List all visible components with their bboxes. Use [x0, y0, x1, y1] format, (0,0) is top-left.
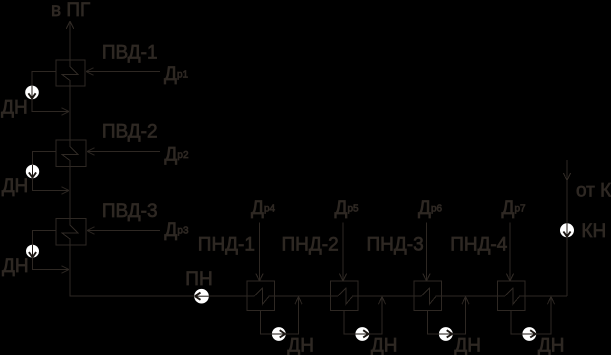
- wire: drain return of ПНД-2 into main line with up arrowhead: [369, 297, 386, 334]
- heater ПНД-1 (box with zigzag): [247, 281, 275, 311]
- wire: drain return of ПВД-3 into main line with arrowhead: [33, 257, 70, 273]
- label Др6 (extraction steam 6): [418, 198, 443, 219]
- wire: main line ПНД-3 to ПНД-4: [441, 295, 497, 297]
- svg-text:р3: р3: [177, 226, 189, 237]
- wire: drain return of ПНД-1 into main line with up arrowhead: [286, 297, 303, 334]
- svg-text:Д: Д: [164, 64, 177, 85]
- label Др2 (extraction steam 2): [164, 145, 189, 166]
- wire: steam line Др4 into ПНД-1 with down arrowhead: [256, 223, 263, 282]
- wire: steam line Др2 into ПВД-2 with arrowhead: [87, 148, 160, 155]
- wire: steam line Др5 into ПНД-2 with down arrowhead: [339, 223, 346, 282]
- wire: drain return of ПНД-3 into main line with up arrowhead: [453, 297, 470, 334]
- heater ПНД-4 (box with zigzag): [497, 281, 525, 311]
- svg-text:р7: р7: [515, 204, 527, 215]
- svg-text:ДН: ДН: [2, 256, 29, 277]
- wire: drain loop of ПНД-3: [428, 311, 439, 335]
- heater ПНД-3 (box with zigzag): [414, 281, 442, 311]
- wire: drain loop of ПНД-1: [261, 311, 272, 335]
- svg-text:ПНД-3: ПНД-3: [367, 235, 424, 256]
- wire: main line from ПВД-3 down and corner to bottom run: [70, 245, 195, 296]
- wire: steam line Др7 into ПНД-4 with down arrowhead: [506, 223, 513, 282]
- wire: main line ПНД-1 to ПНД-2: [274, 295, 330, 297]
- wire: main line between ПВД-2 and ПВД-3: [69, 167, 71, 219]
- wire: drain loop of ПВД-2 to pump: [33, 152, 57, 166]
- svg-text:Д: Д: [164, 220, 177, 241]
- svg-text:в ПГ: в ПГ: [51, 0, 90, 21]
- svg-text:р1: р1: [177, 69, 189, 80]
- svg-text:ДН: ДН: [538, 336, 565, 355]
- pump ДН5 (drain pump under ПНД-2, circle with right arrow): [355, 327, 369, 341]
- wire: bottom main line ПН to ПНД-1: [209, 295, 247, 297]
- svg-text:КН: КН: [581, 221, 606, 242]
- svg-text:от К: от К: [576, 181, 611, 202]
- svg-text:ДН: ДН: [454, 336, 481, 355]
- wire: drain return of ПВД-2 into main line with arrowhead: [33, 178, 70, 195]
- wire: drain return of ПВД-1 into main line with arrowhead: [32, 99, 69, 116]
- wire: drain loop of ПВД-1 to pump: [32, 72, 56, 86]
- pump ДН2 (drain pump, circle with down arrow): [26, 165, 39, 178]
- svg-text:ПВД-2: ПВД-2: [102, 122, 158, 143]
- pump КН (condensate pump, circle with down arrow): [560, 223, 574, 237]
- pump ПН (feed pump, circle with left arrow on bottom main line): [194, 289, 209, 304]
- wire: drain loop of ПНД-4: [511, 311, 522, 335]
- svg-text:Д: Д: [502, 198, 515, 219]
- wire: drain return of ПНД-4 into main line with up arrowhead: [536, 297, 555, 334]
- wire: feedwater outlet to steam generator with up arrowhead: [66, 21, 74, 60]
- svg-text:ПВД-1: ПВД-1: [102, 43, 158, 64]
- pump ДН4 (drain pump under ПНД-1, circle with right arrow): [272, 327, 286, 341]
- svg-text:ДН: ДН: [371, 336, 398, 355]
- svg-text:ПНД-4: ПНД-4: [450, 235, 508, 256]
- svg-text:Д: Д: [418, 198, 431, 219]
- svg-text:ДН: ДН: [1, 98, 28, 119]
- label Др1 (extraction steam 1): [164, 64, 189, 85]
- wire: main line between ПВД-1 and ПВД-2: [69, 86, 71, 140]
- wire: drain loop of ПНД-2: [344, 311, 355, 335]
- svg-text:ДН: ДН: [287, 336, 314, 355]
- pump ДН6 (drain pump under ПНД-3, circle with right arrow): [439, 327, 453, 341]
- wire: drain loop of ПВД-3 to pump: [33, 231, 57, 245]
- label Др3 (extraction steam 3): [164, 220, 189, 241]
- svg-text:р4: р4: [264, 204, 276, 215]
- svg-text:р2: р2: [177, 150, 189, 161]
- svg-text:ПН: ПН: [185, 269, 212, 290]
- svg-text:ДН: ДН: [2, 176, 29, 197]
- wire: condensate line from КН down to bottom main line: [566, 237, 568, 297]
- label Др7 (extraction steam 7): [502, 198, 527, 219]
- svg-text:р5: р5: [348, 204, 360, 215]
- pump ДН1 (drain pump, circle with down arrow): [25, 86, 39, 100]
- svg-text:ПНД-1: ПНД-1: [198, 235, 255, 256]
- pump ДН7 (drain pump under ПНД-4, circle with right arrow): [522, 327, 536, 341]
- wire: condensate inlet from condenser (от К) with down arrowhead: [563, 160, 570, 223]
- heater ПВД-1 (box with zigzag): [56, 60, 85, 86]
- wire: main line ПНД-2 to ПНД-3: [358, 295, 414, 297]
- label Др4 (extraction steam 4): [251, 198, 276, 219]
- pump ДН3 (drain pump, circle with down arrow): [26, 245, 39, 258]
- svg-text:р6: р6: [431, 204, 443, 215]
- heater ПНД-2 (box with zigzag): [330, 281, 358, 311]
- wire: steam line Др1 into ПВД-1 with arrowhead: [86, 68, 160, 75]
- label Др5 (extraction steam 5): [335, 198, 360, 219]
- svg-text:ПНД-2: ПНД-2: [282, 235, 339, 256]
- svg-text:Д: Д: [164, 145, 177, 166]
- svg-text:Д: Д: [251, 198, 264, 219]
- heater ПВД-2 (box with zigzag): [56, 140, 86, 167]
- wire: steam line Др3 into ПВД-3 with arrowhead: [87, 227, 160, 234]
- heater ПВД-3 (box with zigzag): [56, 219, 86, 246]
- svg-text:Д: Д: [335, 198, 348, 219]
- svg-text:ПВД-3: ПВД-3: [102, 201, 158, 222]
- wire: main line ПНД-4 to right corner: [525, 295, 567, 297]
- wire: steam line Др6 into ПНД-3 with down arrowhead: [423, 223, 430, 282]
